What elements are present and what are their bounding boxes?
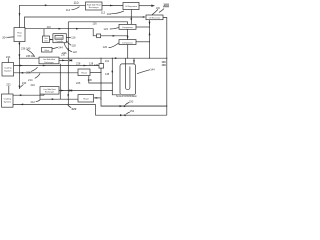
svg-text:Low Side Heat: Low Side Heat (43, 88, 56, 91)
svg-text:Oil Separator: Oil Separator (125, 5, 137, 8)
svg-text:Suction Accumulator: Suction Accumulator (116, 95, 137, 98)
svg-text:230: 230 (22, 81, 27, 85)
svg-text:Cooling: Cooling (4, 99, 12, 101)
svg-text:110: 110 (74, 1, 79, 5)
svg-text:216: 216 (31, 83, 36, 87)
svg-text:Exchanger: Exchanger (89, 6, 99, 9)
svg-text:120: 120 (103, 45, 108, 49)
svg-text:System: System (4, 101, 11, 104)
svg-text:150: 150 (129, 99, 134, 103)
svg-text:144: 144 (150, 68, 155, 72)
svg-text:Unit: Unit (44, 39, 48, 42)
svg-text:Head: Head (83, 98, 89, 100)
svg-text:238: 238 (26, 70, 31, 74)
svg-text:222: 222 (72, 107, 77, 111)
svg-text:High Side Heat: High Side Heat (87, 3, 101, 6)
svg-text:116: 116 (71, 36, 76, 40)
svg-text:212: 212 (31, 100, 36, 104)
svg-text:244: 244 (58, 45, 63, 49)
svg-text:Cooling: Cooling (4, 67, 12, 69)
svg-text:246: 246 (62, 51, 67, 55)
svg-text:Control: Control (56, 36, 63, 39)
svg-text:228: 228 (76, 61, 81, 65)
svg-text:226: 226 (76, 81, 81, 85)
svg-text:Oil Reservoir: Oil Reservoir (149, 18, 161, 20)
svg-text:106: 106 (156, 7, 161, 10)
svg-text:114: 114 (66, 8, 71, 12)
svg-text:148: 148 (162, 64, 167, 67)
svg-text:100: 100 (163, 3, 169, 7)
svg-text:Low Side Heat: Low Side Heat (43, 58, 56, 61)
svg-text:120: 120 (72, 44, 77, 48)
svg-text:204: 204 (2, 35, 7, 39)
svg-text:Exchanger: Exchanger (45, 91, 54, 94)
svg-text:152: 152 (130, 109, 135, 113)
svg-text:124: 124 (104, 27, 109, 31)
svg-text:Compressor: Compressor (122, 27, 133, 29)
svg-text:236 240: 236 240 (21, 46, 31, 50)
svg-text:126: 126 (93, 23, 98, 26)
svg-text:Exchanger: Exchanger (44, 61, 53, 64)
svg-text:104: 104 (107, 12, 112, 16)
svg-text:138: 138 (105, 73, 110, 76)
svg-text:System: System (4, 69, 11, 72)
svg-text:Heat: Heat (17, 32, 22, 35)
svg-text:Head: Head (81, 73, 87, 75)
svg-text:134: 134 (105, 60, 110, 63)
svg-text:112: 112 (101, 11, 106, 15)
svg-text:Controller: Controller (56, 40, 64, 43)
svg-text:Compressor: Compressor (122, 42, 133, 44)
svg-text:122: 122 (73, 50, 78, 54)
svg-text:132: 132 (94, 64, 99, 67)
svg-text:136: 136 (88, 78, 93, 82)
svg-text:214: 214 (28, 78, 33, 82)
